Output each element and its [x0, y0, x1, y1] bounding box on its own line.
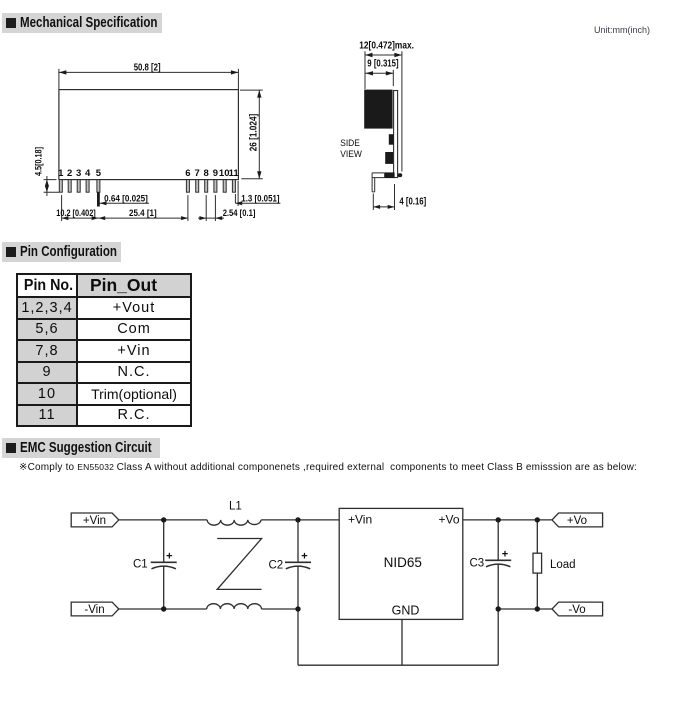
svg-text:C3: C3 — [470, 558, 485, 570]
arrowheads: 26 top / bottom — [257, 90, 261, 98]
module body front view — [59, 90, 239, 180]
pin 5 — [97, 180, 100, 193]
inductor L1 top winding — [207, 520, 261, 525]
svg-text:6: 6 — [185, 168, 190, 179]
svg-text:4.5[0.18]: 4.5[0.18] — [34, 147, 44, 176]
wire NID65 +Vo to +Vo tag — [463, 519, 552, 521]
junction node C2 bottom — [295, 606, 300, 611]
svg-text:11: 11 — [229, 168, 240, 179]
output tag -Vo — [552, 602, 603, 616]
svg-text:3: 3 — [76, 168, 81, 179]
svg-text:SIDE: SIDE — [340, 138, 360, 148]
arrowheads: 25.4 — [98, 216, 105, 220]
svg-text:+Vin: +Vin — [83, 515, 106, 527]
ground return wire: C2 junction down — [297, 609, 299, 665]
svg-text:9 [0.315]: 9 [0.315] — [367, 59, 398, 70]
dimension 10.2 extension line below pin 1 — [61, 195, 63, 221]
side view pin base (filled) — [384, 172, 394, 178]
svg-text:+: + — [502, 549, 508, 561]
wire bottom winding to C2 junction — [262, 608, 299, 610]
module U1 NID65 box — [339, 508, 463, 619]
input tag +Vin — [71, 513, 119, 527]
pin 3 — [77, 180, 80, 193]
svg-text:-Vo: -Vo — [568, 604, 585, 616]
svg-text:+: + — [301, 551, 307, 563]
dimension 0.64 leader line — [100, 202, 150, 204]
capacitor C3 top lead — [497, 520, 499, 560]
side view dimension 4 extension lines — [373, 184, 394, 210]
dimension 1.3 extension line — [235, 181, 238, 206]
arrowheads: 4.5 (inward pointing) — [45, 180, 49, 186]
svg-text:25.4 [1]: 25.4 [1] — [129, 208, 157, 218]
svg-text:-Vin: -Vin — [84, 604, 104, 616]
junction node load bottom — [535, 606, 540, 611]
arrowhead: 0.64 leader (points left to pin 5) — [100, 201, 107, 205]
load resistor body — [533, 553, 542, 573]
side view pin lead (hollow L shape) — [372, 173, 384, 192]
section header: Pin Configuration — [2, 242, 121, 262]
load resistor top lead — [536, 520, 538, 553]
pin 7 — [196, 180, 199, 193]
pin configuration table — [16, 273, 192, 427]
dimension 10.2 line — [62, 217, 99, 219]
dimension 2.54 line with overshoot — [198, 217, 224, 219]
capacitor C1 plates — [151, 561, 177, 563]
svg-text:L1: L1 — [229, 501, 242, 513]
svg-text:C2: C2 — [269, 560, 284, 572]
dimension 2.54 extension lines below pins 8 and 9 — [206, 195, 215, 221]
svg-text:26 [1.024]: 26 [1.024] — [248, 114, 259, 152]
svg-text:10.2 [0.402]: 10.2 [0.402] — [56, 208, 95, 218]
svg-text:Load: Load — [550, 559, 576, 571]
svg-text:50.8 [2]: 50.8 [2] — [134, 63, 161, 74]
arrowheads: side 12 — [365, 53, 373, 57]
capacitor C2 plates — [285, 561, 311, 563]
svg-text:12[0.472]max.: 12[0.472]max. — [359, 41, 414, 52]
dimension 25.4 line — [98, 217, 187, 219]
section header: EMC Suggestion Circuit — [2, 438, 160, 458]
svg-text:4 [0.16]: 4 [0.16] — [399, 197, 426, 208]
svg-text:8: 8 — [204, 168, 209, 179]
pin 8 — [205, 180, 208, 193]
pin 10 — [223, 180, 226, 193]
section header: Mechanical Specification — [2, 13, 162, 33]
wire L1 to NID65 +Vin — [261, 519, 339, 521]
svg-text:+: + — [166, 551, 172, 563]
junction node C3 bottom — [496, 606, 501, 611]
svg-text:4: 4 — [85, 168, 91, 179]
arrowhead: 1.3 leader (points left to pin 11) — [235, 201, 242, 205]
junction node C1 bottom — [161, 606, 166, 611]
junction node C3 top — [496, 517, 501, 522]
side view module body (filled) — [364, 90, 392, 129]
junction node C2 top — [295, 517, 300, 522]
svg-text:1.3 [0.051]: 1.3 [0.051] — [241, 194, 279, 204]
side view pin tip through PCB — [398, 173, 403, 177]
capacitor C1 top lead — [163, 520, 165, 562]
svg-text:2.54 [0.1]: 2.54 [0.1] — [223, 208, 256, 218]
svg-text:+Vo: +Vo — [439, 513, 460, 527]
side view dimension 9 line — [366, 72, 394, 74]
unit note — [594, 25, 650, 35]
svg-text:+Vo: +Vo — [567, 515, 587, 527]
dimension 26 [1.024] line — [258, 90, 260, 179]
capacitor C3 bottom lead — [497, 565, 499, 609]
input tag -Vin — [71, 602, 119, 616]
dimension 25.4 extension line below pin 6 — [187, 195, 189, 221]
capacitor C1 bottom lead — [163, 567, 165, 609]
choke core Z symbol — [217, 539, 261, 590]
pin 1 — [59, 180, 62, 193]
capacitor C2 bottom lead — [297, 567, 299, 609]
svg-text:NID65: NID65 — [384, 555, 422, 570]
svg-text:7: 7 — [195, 168, 200, 179]
svg-text:GND: GND — [392, 604, 420, 618]
side view 12 dim extension lines — [365, 51, 402, 171]
dimension 50.8 [2] line — [59, 71, 239, 73]
capacitor C2 top lead — [297, 520, 299, 562]
svg-text:9: 9 — [213, 168, 218, 179]
junction node load top — [535, 517, 540, 522]
dimension 50.8 [2] extension lines — [59, 69, 239, 89]
svg-text:0.64 [0.025]: 0.64 [0.025] — [104, 194, 148, 204]
output tag +Vo — [552, 513, 603, 527]
svg-text:1: 1 — [58, 168, 64, 179]
side view dimension 12 line — [365, 54, 402, 56]
side view PCB board — [394, 91, 398, 178]
EMC note line — [19, 462, 637, 473]
dimension 4.5[0.18] line — [46, 176, 48, 196]
wire -Vo rail — [498, 608, 552, 610]
side view dimension 4 line — [373, 206, 394, 208]
pin 2 — [68, 180, 71, 193]
dimension 1.3 leader line — [235, 202, 280, 204]
svg-text:VIEW: VIEW — [340, 149, 362, 159]
side view standoff block lower — [385, 152, 393, 164]
pin 11 — [232, 180, 235, 193]
arrowheads: 10.2 — [62, 216, 69, 220]
pin 5 thickness mark for 0.64 dim — [97, 192, 100, 206]
arrowheads: 50.8 left / right — [59, 70, 67, 74]
svg-text:5: 5 — [96, 168, 102, 179]
side view standoff block upper — [389, 134, 394, 145]
pin 9 — [214, 180, 217, 193]
wire +Vin tag to L1 — [119, 519, 207, 521]
ground return wire: bottom horizontal — [298, 664, 498, 666]
svg-text:2: 2 — [67, 168, 72, 179]
svg-text:+Vin: +Vin — [348, 513, 372, 527]
pin 6 — [186, 180, 189, 193]
arrowheads: 2.54 (outside, pointing inward) — [199, 216, 206, 220]
capacitor C3 plates — [485, 559, 511, 561]
arrowheads: side 9 — [366, 71, 374, 75]
pin 4 — [86, 180, 89, 193]
wire -Vin tag to bottom winding — [119, 608, 207, 610]
side view 9 dim right extension line — [392, 70, 394, 86]
junction node C1 top — [161, 517, 166, 522]
svg-text:C1: C1 — [133, 559, 148, 571]
load resistor bottom lead — [536, 573, 538, 609]
dimension 26 [1.024] extension lines — [240, 90, 263, 179]
inductor L1 bottom winding — [207, 604, 262, 609]
wire GND pin of NID65 — [401, 619, 403, 665]
ground return wire: up to -Vo rail — [497, 609, 499, 665]
arrowheads: side 4 — [373, 205, 380, 209]
dimension 4.5[0.18] extension lines — [44, 180, 59, 193]
